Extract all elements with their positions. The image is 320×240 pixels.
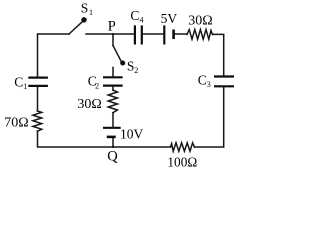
- svg-text:70Ω: 70Ω: [4, 116, 28, 131]
- capacitor C2 top plate: [103, 76, 123, 78]
- capacitor C1 top plate: [28, 76, 48, 78]
- svg-text:C: C: [14, 74, 23, 89]
- wire top-left segment from left corner to switch S1 hinge: [38, 34, 70, 77]
- svg-text:4: 4: [140, 16, 144, 25]
- wire between 5V battery and 30ohm resistor R1: [175, 33, 187, 35]
- wire right segment below C3 to bottom-right corner: [194, 87, 223, 147]
- wire top segment from S1 right contact to node P: [86, 33, 113, 35]
- capacitor C3 top plate: [214, 75, 234, 77]
- svg-text:100Ω: 100Ω: [167, 154, 197, 169]
- switch S1 blade: [69, 22, 82, 34]
- switch S2 blade: [113, 46, 121, 62]
- svg-text:C: C: [130, 8, 139, 23]
- switch S1 contact dot: [81, 17, 86, 22]
- wire left segment from C1 bottom plate to 70ohm resistor: [37, 87, 39, 111]
- capacitor C2 bottom plate: [103, 84, 123, 86]
- svg-text:P: P: [108, 19, 116, 35]
- node P (junction of top wire and middle branch): [112, 33, 114, 36]
- capacitor C4 left plate: [134, 25, 136, 44]
- svg-text:2: 2: [95, 81, 99, 90]
- wire stem from 10V battery bottom plate to node Q: [112, 138, 114, 147]
- resistor R3 70ohm zigzag (left): [33, 111, 42, 131]
- wire stem from S2 lower contact to capacitor C2 top plate: [112, 68, 114, 77]
- wire bottom segment from node Q to bottom-left corner, up to 70ohm resistor: [38, 131, 114, 147]
- battery B1 5V long plate: [163, 25, 165, 44]
- svg-text:3: 3: [207, 80, 211, 89]
- wire between C4 and 5V battery: [143, 33, 163, 35]
- resistor R4 100ohm zigzag (bottom): [170, 143, 194, 151]
- wire middle branch from node P down to switch S2 hinge: [112, 34, 114, 46]
- switch S2 contact dot: [120, 60, 125, 65]
- capacitor C4 right plate: [141, 25, 143, 44]
- svg-text:5V: 5V: [161, 11, 178, 26]
- svg-text:10V: 10V: [120, 126, 144, 141]
- svg-text:C: C: [198, 72, 207, 87]
- battery B1 5V short plate: [172, 30, 175, 40]
- wire top segment from node P to capacitor C4: [113, 33, 134, 35]
- capacitor C3 bottom plate: [214, 85, 234, 87]
- svg-text:Q: Q: [107, 149, 118, 165]
- svg-text:1: 1: [23, 82, 27, 91]
- svg-text:30Ω: 30Ω: [77, 97, 101, 112]
- wire bottom segment from 100ohm resistor to node Q: [113, 146, 170, 148]
- svg-text:1: 1: [89, 8, 93, 17]
- wire top-right segment to right corner: [213, 34, 224, 75]
- node Q (junction of bottom wire and middle branch): [112, 145, 114, 148]
- svg-text:2: 2: [134, 66, 138, 75]
- battery B2 10V short plate: [107, 136, 116, 139]
- capacitor C1 bottom plate: [28, 85, 48, 87]
- wire stem from C2 bottom plate to 30ohm resistor R2: [112, 87, 114, 90]
- wire stem from R2 to 10V battery top plate: [112, 113, 114, 127]
- svg-text:30Ω: 30Ω: [188, 13, 212, 28]
- svg-text:S: S: [81, 0, 89, 15]
- resistor R1 30ohm zigzag (top): [187, 30, 213, 40]
- battery B2 10V long plate: [103, 127, 121, 129]
- resistor R2 30ohm zigzag (middle): [108, 90, 117, 113]
